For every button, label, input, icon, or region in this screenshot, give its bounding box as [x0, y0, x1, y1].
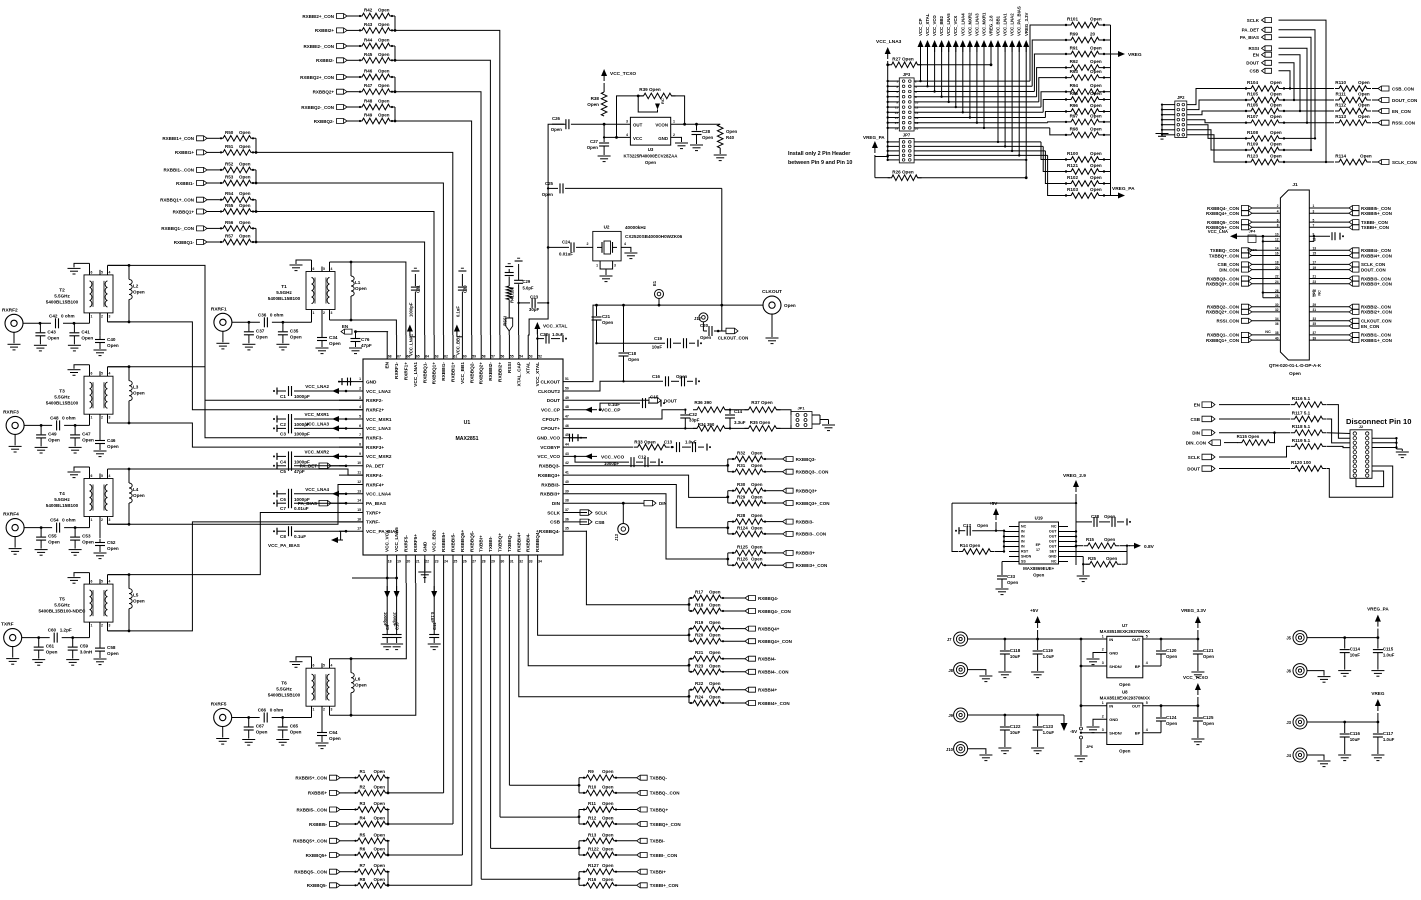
svg-text:37: 37: [565, 508, 569, 512]
port RXBBQ3+_CON: [783, 501, 830, 506]
svg-text:R123: R123: [1247, 154, 1258, 159]
port RXBBI1-_CON: [163, 167, 207, 172]
svg-text:R50: R50: [225, 130, 234, 135]
port DIN_CON J1 pin20: [1219, 266, 1280, 273]
power flag VCC_LNA5 down: [394, 583, 400, 598]
resistor R121: [1065, 163, 1111, 174]
wire JP7 row 3 left: [887, 150, 900, 152]
wire SET: [1068, 546, 1127, 552]
svg-text:C66: C66: [258, 708, 267, 713]
svg-text:1: 1: [673, 120, 675, 124]
svg-text:RXBBI5+: RXBBI5+: [441, 532, 446, 552]
node J1 pin28: [1275, 294, 1279, 298]
power flag VCC_VCX down: [384, 583, 390, 598]
port RXBBI5-_CON J1 pin1: [1309, 204, 1390, 211]
port SCLK: [1188, 454, 1215, 460]
svg-text:C8: C8: [280, 534, 286, 539]
svg-text:Open: Open: [602, 877, 614, 882]
resistor R54: [219, 191, 255, 202]
svg-text:RXRF3+: RXRF3+: [366, 445, 384, 450]
port TXBBQ-_CON J1 pin14: [1210, 247, 1280, 254]
wire port net y37.2: [1279, 37, 1313, 151]
svg-text:RXBBI5+_CON: RXBBI5+_CON: [295, 776, 327, 781]
port RXBBQ4+_CON: [745, 639, 792, 644]
svg-text:+5V: +5V: [1030, 608, 1039, 613]
svg-text:3: 3: [1102, 661, 1104, 665]
svg-text:5.6pF: 5.6pF: [523, 286, 534, 291]
svg-text:4: 4: [1146, 661, 1148, 665]
svg-text:Open: Open: [709, 603, 721, 608]
wire T3 secondary top: [108, 366, 130, 368]
svg-text:R20: R20: [695, 633, 704, 638]
wire RXBBQ4+: [725, 628, 745, 630]
svg-text:24: 24: [1275, 280, 1279, 284]
svg-text:5400BL15B100: 5400BL15B100: [46, 503, 79, 508]
svg-text:19: 19: [1313, 266, 1317, 270]
svg-text:4: 4: [109, 474, 111, 478]
svg-text:TXBBI+: TXBBI+: [650, 870, 667, 875]
inductor L2: [128, 264, 145, 323]
wire RXBBI3+ feed: [587, 494, 728, 559]
svg-text:R55: R55: [225, 203, 234, 208]
svg-text:62: 62: [444, 355, 448, 359]
svg-text:C36: C36: [258, 312, 267, 317]
port RXBBI4-_CON: [745, 669, 789, 674]
svg-text:R120 100: R120 100: [1291, 460, 1311, 465]
wire junction R127/R16: [578, 872, 582, 886]
power VCC_LNA3 feed: [876, 39, 902, 160]
port RXBBQ3-_CON: [783, 469, 829, 474]
svg-text:RXBBQ3-: RXBBQ3-: [539, 464, 561, 469]
svg-text:R54: R54: [225, 191, 234, 196]
svg-text:C115: C115: [1383, 647, 1394, 652]
svg-text:R36 390: R36 390: [694, 400, 712, 405]
capacitor C6: [273, 489, 347, 502]
svg-text:RXBBI3-: RXBBI3-: [541, 482, 560, 487]
svg-text:RXBBI5-: RXBBI5-: [309, 822, 328, 827]
connector J1 body: [1280, 182, 1309, 360]
capacitor C61: [32, 638, 57, 666]
svg-text:52: 52: [538, 355, 542, 359]
svg-text:OUT: OUT: [1049, 530, 1057, 534]
wire junction R52/R53: [255, 170, 258, 185]
wire U19 top loop: [952, 502, 1077, 504]
port RSSI: [503, 316, 513, 335]
svg-text:TXBBQ+_CON: TXBBQ+_CON: [1209, 253, 1239, 258]
svg-text:C19: C19: [654, 336, 663, 341]
wire T4 secondary top: [108, 468, 130, 470]
svg-text:R30: R30: [737, 482, 746, 487]
svg-text:C114: C114: [1350, 647, 1361, 652]
wire port net y62.8: [1279, 63, 1296, 101]
header JP7: [899, 133, 914, 163]
svg-text:Open: Open: [587, 145, 599, 150]
svg-text:47pF: 47pF: [361, 343, 372, 348]
wire JP3 row 1 left: [887, 80, 900, 82]
svg-text:Open: Open: [645, 160, 657, 165]
svg-text:29: 29: [491, 560, 495, 564]
wire TXBBI+_CON: [618, 884, 637, 886]
port RXBBQ4+: [745, 626, 780, 631]
svg-text:Open: Open: [82, 437, 94, 442]
svg-text:R44: R44: [364, 38, 373, 43]
regulator U19: [1019, 516, 1059, 578]
svg-text:1: 1: [1102, 634, 1104, 638]
svg-text:40000kHz: 40000kHz: [625, 225, 647, 230]
svg-text:RXBBI3+: RXBBI3+: [540, 492, 560, 497]
power VCC_PA_BIAS: [1016, 6, 1022, 52]
resistor R48: [358, 99, 394, 110]
svg-text:Open: Open: [751, 557, 763, 562]
resistor R29: [731, 495, 767, 506]
wire TXBBI-: [618, 840, 637, 842]
wire TXBB net 1: [500, 583, 579, 817]
wire RXBBQ2+: [347, 91, 358, 93]
wire RXBB1 net 0: [256, 152, 453, 335]
svg-text:RXBBQ2+: RXBBQ2+: [479, 362, 484, 385]
svg-text:R95: R95: [1070, 91, 1079, 96]
capacitor C17: [955, 523, 997, 536]
svg-text:36: 36: [1275, 322, 1279, 326]
op-amp U1 MAX2851 body: [363, 359, 563, 555]
svg-text:13: 13: [1313, 247, 1317, 251]
wire J2 right rows: [1372, 437, 1402, 451]
power VCC_LNA5: [946, 13, 952, 52]
svg-text:Open: Open: [602, 784, 614, 789]
wire RXBBI4+: [725, 689, 745, 691]
wire RXRF5+ to U1 pin21: [351, 583, 416, 715]
svg-text:DOUT_CON: DOUT_CON: [1392, 98, 1417, 103]
wire TXBBQ-_CON: [618, 792, 637, 794]
svg-text:RXBBI3+: RXBBI3+: [796, 551, 816, 556]
resistor R49: [358, 113, 394, 124]
svg-text:R121: R121: [1067, 163, 1078, 168]
svg-text:C2: C2: [280, 422, 286, 427]
svg-text:Open: Open: [751, 544, 763, 549]
resistor R32: [731, 451, 767, 462]
wire TXBBQ+_CON: [618, 823, 637, 825]
svg-text:EN_CON: EN_CON: [1392, 109, 1411, 114]
svg-text:R37 Open: R37 Open: [751, 400, 773, 405]
capacitor C76: [349, 332, 372, 354]
resistor R17: [689, 590, 725, 601]
wire RXBBI3+: [767, 552, 783, 554]
wire U3 VCON node: [671, 123, 721, 126]
svg-text:2: 2: [101, 314, 103, 318]
svg-text:R4: R4: [360, 816, 366, 821]
wire JP7 row 4 left: [887, 154, 900, 156]
svg-text:Open: Open: [751, 451, 763, 456]
svg-text:RXBBI2-: RXBBI2-: [488, 362, 493, 381]
svg-text:1.0uF: 1.0uF: [1383, 653, 1395, 658]
svg-text:RXBBI4-: RXBBI4-: [526, 533, 531, 552]
resistor R106: [1245, 103, 1285, 114]
wire TXBBQ+: [618, 809, 637, 811]
svg-text:Open: Open: [1090, 69, 1102, 74]
svg-text:38: 38: [565, 499, 569, 503]
port RXBBI1+_CON: [162, 136, 207, 141]
power VREG_3.3V: [1181, 608, 1207, 639]
label T5: [39, 597, 87, 614]
svg-text:Open: Open: [1203, 721, 1215, 726]
capacitor C16: [587, 374, 700, 391]
port RXBBI3+_CON J1 pin23: [1309, 280, 1392, 287]
resistor R99: [1065, 32, 1111, 43]
svg-text:Open: Open: [1090, 46, 1102, 51]
wire JP3 row 2 net: [914, 40, 1066, 88]
resistor R11: [582, 801, 618, 812]
svg-text:CSB: CSB: [550, 520, 561, 525]
wire JP3 row 10 net: [914, 47, 1066, 135]
wire junction R56/R57: [255, 228, 258, 243]
svg-text:R33 Open: R33 Open: [634, 440, 656, 445]
wire RXBBI4-: [725, 658, 745, 660]
resistor R97: [1065, 113, 1111, 124]
svg-text:R125: R125: [737, 544, 748, 549]
svg-text:DOUT: DOUT: [664, 398, 677, 403]
svg-text:Open: Open: [1090, 175, 1102, 180]
power VCC_VCX: [953, 16, 959, 52]
port PA_DET: [1242, 27, 1272, 32]
capacitor C37: [242, 322, 267, 350]
svg-text:DOUT: DOUT: [547, 398, 560, 403]
port DOUT_CON: [1372, 98, 1417, 103]
capacitor C43: [34, 323, 59, 351]
svg-text:C24: C24: [562, 239, 571, 244]
resistor R12: [582, 816, 618, 827]
wire RXBBQ5-: [340, 884, 354, 886]
svg-text:R27 Open: R27 Open: [892, 57, 914, 62]
capacitor C124: [1156, 706, 1178, 733]
wire RXBBI4-_CON: [725, 671, 745, 673]
wire JP7 row 5 net: [914, 47, 1027, 161]
svg-text:R91: R91: [1070, 46, 1079, 51]
svg-text:Open: Open: [602, 769, 614, 774]
resistor R38: [587, 92, 607, 116]
wire J1 pin12: [1262, 236, 1281, 298]
svg-text:7: 7: [1313, 224, 1315, 228]
wire RXBBI3+_CON: [767, 564, 783, 566]
capacitor C47: [69, 425, 94, 453]
svg-text:5: 5: [323, 664, 325, 668]
svg-text:Open: Open: [751, 482, 763, 487]
svg-text:10uF: 10uF: [1010, 730, 1021, 735]
wire junction R46/R47: [394, 77, 397, 93]
svg-text:PA_DET: PA_DET: [300, 464, 318, 469]
svg-text:3: 3: [626, 120, 628, 124]
svg-text:C22: C22: [540, 332, 549, 337]
svg-text:RXBBI5-_CON: RXBBI5-_CON: [296, 807, 327, 812]
svg-text:R16: R16: [588, 877, 597, 882]
port DOUT: [1246, 60, 1271, 65]
label T4: [46, 491, 79, 508]
svg-text:J4: J4: [1286, 753, 1291, 758]
svg-text:MAX2851: MAX2851: [455, 436, 478, 442]
svg-text:10: 10: [357, 461, 361, 465]
svg-text:RXBBI1+_CON: RXBBI1+_CON: [162, 136, 194, 141]
svg-text:Open: Open: [602, 816, 614, 821]
wire -5V rail: [968, 714, 1064, 717]
svg-text:3: 3: [109, 624, 111, 628]
svg-text:DOUT_CON: DOUT_CON: [1361, 267, 1386, 272]
svg-text:22: 22: [1275, 275, 1279, 279]
svg-text:JP2: JP2: [1177, 95, 1185, 100]
svg-text:Open: Open: [602, 847, 614, 852]
wire JP3 row 7 left: [887, 111, 900, 113]
wire VREG_PA rail: [1307, 636, 1379, 639]
port RXBBQ2-_CON J1 pin30: [1207, 303, 1280, 310]
port RSSI: [1248, 46, 1271, 51]
svg-text:67: 67: [397, 355, 401, 359]
port TXBBQ-_CON: [637, 790, 680, 795]
node GND pin1 termination: [338, 378, 352, 386]
svg-text:RXBBQ4+: RXBBQ4+: [758, 626, 780, 631]
port RXBBQ4+_CON J1 pin4: [1206, 209, 1280, 216]
wire U8 OUT: [1143, 704, 1200, 707]
wire RXBBI2-: [347, 59, 358, 61]
svg-text:5400BL15B100: 5400BL15B100: [46, 401, 79, 406]
port RXBBI4+_CON: [745, 701, 790, 706]
port CSB_CON J1 pin18: [1218, 261, 1281, 268]
svg-text:TXBBI+_CON: TXBBI+_CON: [650, 883, 679, 888]
wire RXBBQ3+_CON: [767, 502, 783, 504]
svg-text:Open: Open: [1203, 654, 1215, 659]
svg-text:1000pF: 1000pF: [393, 612, 398, 627]
wire RXRF3+ to U1 pin8: [108, 423, 364, 447]
resistor R45: [358, 52, 394, 63]
port RXBBQ1+_CON: [160, 197, 207, 202]
svg-text:RXBBQ5+: RXBBQ5+: [460, 529, 465, 552]
svg-text:EP: EP: [1036, 543, 1041, 547]
capacitor C14: [725, 409, 746, 428]
svg-text:Open: Open: [1289, 371, 1301, 376]
svg-text:IN: IN: [1109, 704, 1113, 709]
svg-text:R18: R18: [695, 603, 704, 608]
resistor R55: [219, 203, 255, 214]
wire junction R32/R31: [726, 459, 731, 472]
svg-text:1000pF: 1000pF: [294, 394, 310, 399]
capacitor C40: [94, 336, 119, 356]
svg-text:R31: R31: [737, 463, 746, 468]
svg-text:3: 3: [359, 396, 361, 400]
port PA_BIAS: [1240, 35, 1272, 40]
wire JP3 row 7 net: [914, 47, 1066, 114]
port EN_CON: [1372, 109, 1411, 114]
resistor R122: [582, 847, 618, 858]
svg-text:56: 56: [501, 355, 505, 359]
svg-text:R115 Open: R115 Open: [1237, 434, 1260, 439]
svg-text:Open: Open: [374, 801, 386, 806]
svg-text:JP4: JP4: [1249, 230, 1257, 234]
svg-text:RSSI_CON: RSSI_CON: [1392, 121, 1415, 126]
svg-text:25: 25: [454, 560, 458, 564]
svg-text:40: 40: [1275, 336, 1279, 340]
port RXBBQ5+_CON J1 pin8: [1206, 224, 1280, 231]
svg-text:VCC_LNA2: VCC_LNA2: [366, 389, 391, 394]
svg-text:Open: Open: [239, 234, 251, 239]
svg-text:Open: Open: [107, 651, 119, 656]
port EN: [1253, 52, 1272, 57]
port RXBBI2-_CON J1 pin29: [1309, 303, 1390, 310]
svg-text:0.1uF: 0.1uF: [455, 306, 460, 317]
port EN: [1194, 402, 1215, 408]
svg-text:SS: SS: [1021, 560, 1026, 564]
wire U19 GND: [1068, 557, 1090, 582]
svg-text:Open: Open: [602, 863, 614, 868]
wire top rail: [725, 409, 748, 411]
svg-text:C17: C17: [963, 523, 972, 528]
power VCC_LNA2: [305, 384, 344, 394]
svg-text:Open: Open: [107, 546, 119, 551]
svg-text:6: 6: [91, 580, 93, 584]
wire TXBB net 2: [491, 583, 579, 848]
svg-text:Open: Open: [1270, 114, 1282, 119]
svg-text:SHDN/: SHDN/: [1109, 731, 1122, 736]
svg-text:R29: R29: [737, 495, 746, 500]
capacitor C12: [575, 455, 663, 468]
svg-text:57: 57: [491, 355, 495, 359]
svg-text:VCC_MXR2: VCC_MXR2: [967, 12, 972, 36]
wire U2 right to ground: [621, 247, 637, 258]
svg-text:between Pin 9 and Pin 10: between Pin 9 and Pin 10: [788, 160, 852, 166]
svg-text:6: 6: [359, 424, 361, 428]
svg-text:31: 31: [1313, 308, 1317, 312]
svg-text:R93: R93: [1070, 69, 1079, 74]
svg-text:C117: C117: [1383, 731, 1394, 736]
capacitor C65: [276, 718, 301, 746]
svg-text:28: 28: [482, 560, 486, 564]
svg-text:SHDN: SHDN: [1021, 555, 1032, 559]
svg-text:J5: J5: [1286, 636, 1291, 641]
wire T6 secondary bottom: [330, 714, 352, 716]
svg-text:17: 17: [1313, 261, 1317, 265]
resistor R16: [582, 877, 618, 888]
port RXBBQ3+_CON J1 pin24: [1206, 280, 1280, 287]
connector J2: [1350, 424, 1372, 478]
svg-text:2: 2: [101, 624, 103, 628]
svg-text:VCC_TCXO: VCC_TCXO: [610, 71, 636, 77]
wire RXBBQ1-: [207, 241, 219, 243]
svg-text:R49: R49: [364, 113, 373, 118]
wire TXRF+ to U1 pin15: [108, 513, 364, 575]
svg-text:R106: R106: [1247, 103, 1258, 108]
wire CLKOUT: [587, 304, 763, 382]
svg-text:R15: R15: [1086, 537, 1095, 542]
wire R110 row: [1284, 88, 1334, 90]
svg-text:SCLK: SCLK: [1247, 18, 1260, 23]
svg-text:Open: Open: [709, 633, 721, 638]
power VREG_PA left: [863, 135, 889, 178]
svg-text:C120: C120: [1166, 648, 1177, 653]
wire RXBBI4- feed: [528, 583, 689, 666]
svg-text:Open: Open: [784, 303, 796, 308]
capacitor C118: [998, 639, 1020, 678]
svg-text:19: 19: [397, 560, 401, 564]
wire DIN to J2: [1327, 432, 1350, 435]
svg-text:PA_DET: PA_DET: [366, 464, 384, 469]
ground U1 pin22: [418, 559, 431, 578]
port TXBBQ+_CON J1 pin16: [1209, 252, 1281, 259]
port TXBBI+_CON: [637, 883, 679, 888]
svg-text:R52: R52: [225, 161, 234, 166]
svg-text:C116: C116: [1350, 731, 1361, 736]
wire T2 secondary bottom: [108, 321, 130, 323]
svg-text:Install only 2 Pin Header: Install only 2 Pin Header: [788, 151, 851, 157]
power VCC_LNA4: [960, 13, 966, 52]
svg-text:EN: EN: [1253, 53, 1259, 58]
wire JP2 row 5: [1187, 125, 1246, 139]
svg-text:4: 4: [359, 405, 361, 409]
